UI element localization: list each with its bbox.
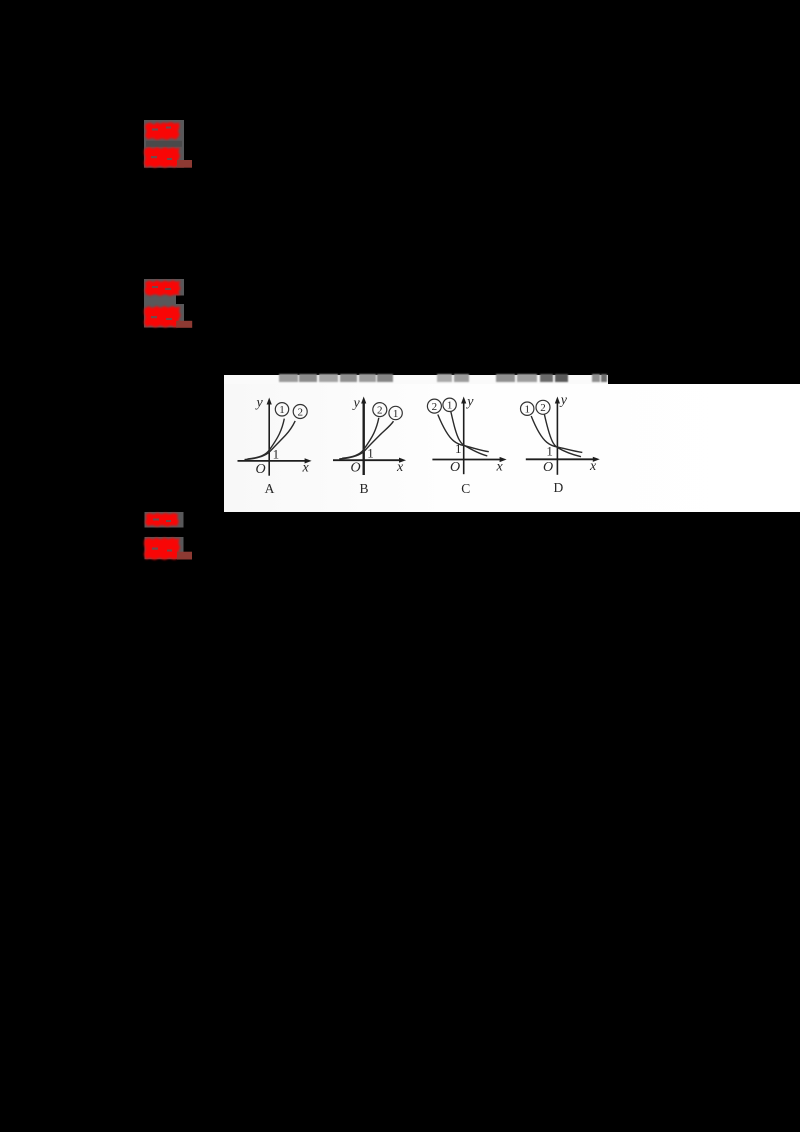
graph A curve 2 (shallow) (245, 421, 296, 460)
stamp 3 red line 1 (144, 513, 180, 560)
stamp 1 dark red tab (177, 160, 192, 168)
svg-text:x: x (396, 460, 404, 475)
stamp 1 red line 2 (144, 147, 180, 168)
svg-text:1: 1 (273, 446, 280, 461)
svg-text:C: C (461, 481, 470, 496)
stamp 3 gray box upper (145, 512, 184, 528)
svg-text:x: x (496, 459, 504, 474)
svg-text:1: 1 (393, 408, 399, 420)
stamp 3 red line 2 (144, 538, 180, 560)
graph C y-axis arrow (461, 397, 466, 404)
svg-text:2: 2 (432, 401, 438, 413)
graph A curve 1 (steep) (248, 419, 285, 459)
clipped text gray fragments on upper strip (279, 374, 298, 381)
stamp 2 red line 2 (144, 306, 181, 328)
graph A x-axis (238, 460, 308, 462)
svg-text:y: y (465, 395, 474, 410)
svg-text:O: O (351, 461, 361, 476)
circle A1 (275, 403, 288, 416)
graph C y-axis (463, 400, 465, 474)
graph B y-axis (363, 400, 365, 475)
stamp 1 inner slits (151, 127, 172, 161)
graph B curve 2 (steep) (342, 418, 379, 458)
white main panel (224, 384, 800, 512)
circle B1 (389, 406, 402, 419)
svg-text:1: 1 (546, 443, 553, 458)
svg-text:1: 1 (447, 400, 453, 412)
stamp 3 inner slits (152, 519, 172, 552)
svg-text:1: 1 (367, 446, 374, 461)
svg-text:1: 1 (455, 441, 462, 456)
stamp 2 dark red tab (176, 321, 192, 328)
graph B x-axis arrow (399, 458, 406, 463)
circle B2 (373, 403, 387, 417)
graph C curve 1 (451, 412, 488, 456)
graph C x-axis arrow (500, 457, 507, 462)
svg-text:1: 1 (524, 404, 530, 416)
graph B x-axis (333, 459, 402, 461)
circle C1 (443, 398, 456, 411)
svg-text:O: O (543, 460, 553, 475)
svg-text:y: y (255, 396, 264, 411)
svg-text:B: B (360, 481, 369, 496)
white upper strip (clipped previous text line area) (224, 375, 608, 385)
circle D2 (536, 400, 550, 414)
stamp 3 (140, 508, 198, 566)
stamp 2 (140, 275, 198, 333)
graph D y-axis arrow (555, 397, 560, 404)
graph D y-axis (556, 400, 558, 475)
stamp 3 gray box lower (145, 537, 184, 559)
svg-text:x: x (589, 459, 597, 474)
graph D curve 2 (544, 415, 581, 457)
graph D x-axis (526, 458, 596, 460)
circle C2 (427, 399, 441, 413)
stamp 2 inner slits (151, 286, 172, 320)
svg-text:1: 1 (279, 404, 285, 416)
svg-text:x: x (302, 461, 310, 476)
circle A2 (293, 405, 307, 419)
stamp 1 (140, 116, 198, 174)
svg-text:2: 2 (297, 406, 303, 418)
svg-text:O: O (450, 460, 460, 475)
stamp 2 red line 1 (144, 280, 181, 327)
stamp 2 gray box (144, 279, 184, 328)
graph D x-axis arrow (593, 457, 600, 462)
svg-text:O: O (256, 462, 266, 477)
graph A y-axis (268, 401, 270, 476)
svg-text:y: y (559, 393, 568, 408)
circle D1 (521, 402, 534, 415)
stamp 1 gray box (144, 120, 184, 168)
graph D curve 1 (531, 416, 582, 452)
graph A x-axis arrow (305, 458, 312, 463)
graph A y-axis arrow (267, 398, 272, 405)
graph C curve 2 (438, 415, 489, 452)
svg-text:D: D (554, 480, 564, 495)
svg-text:A: A (265, 481, 275, 496)
graphs SVG (224, 375, 800, 512)
stamp 1 red line 1 (144, 122, 180, 168)
graph B y-axis arrow (361, 397, 366, 404)
stamp 2 notch (176, 296, 184, 305)
stamp 3 dark red tab (177, 552, 192, 560)
svg-text:2: 2 (540, 402, 546, 414)
graph C x-axis (432, 459, 502, 461)
svg-text:2: 2 (377, 405, 383, 417)
graph B curve 1 (shallow) (339, 421, 393, 459)
svg-text:y: y (352, 396, 361, 411)
